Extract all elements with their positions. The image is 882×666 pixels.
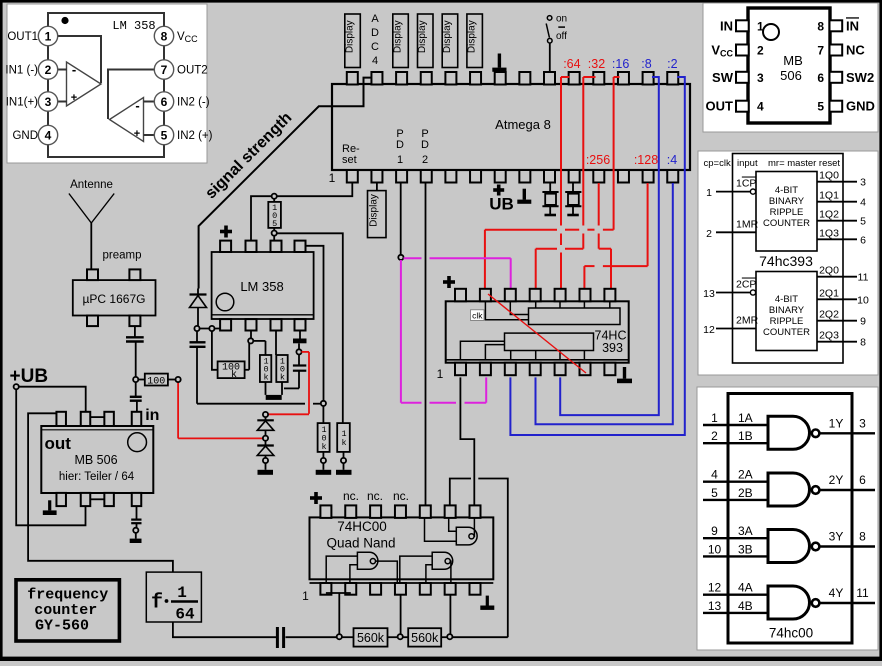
output 1Q2 pin 5 [817,209,866,228]
svg-text:3: 3 [45,95,52,109]
wire +UB to MB506 bottom pin2 [16,389,85,525]
svg-text:9: 9 [711,524,718,538]
svg-text:Display: Display [417,20,428,53]
MB506 top pin 4 [132,412,142,426]
LM358 pin 6 (IN2 (-)) [154,92,209,111]
Atmega bottom pin 14 [667,170,678,183]
svg-text:2MR: 2MR [736,315,759,327]
svg-text:OUT2: OUT2 [177,65,208,77]
svg-text:560k: 560k [411,631,439,645]
svg-text:1: 1 [706,187,712,199]
antenna symbol [69,194,114,270]
svg-text:7: 7 [817,44,824,58]
label :2 [667,57,677,71]
output 1Y pin 3 [819,416,875,433]
svg-text::2: :2 [667,57,677,71]
wire ADC4 signal (diagonal) [199,78,372,289]
393 bottom pin 1 [455,363,466,376]
MB506 pin 7 [817,43,865,58]
svg-text:1Y: 1Y [829,416,844,430]
74HC00 top pin 7 [470,505,481,518]
svg-text:2Q3: 2Q3 [819,330,839,342]
svg-text:1: 1 [757,19,764,33]
svg-text:4: 4 [757,100,764,114]
resistor 1k [337,423,350,458]
svg-text:5: 5 [161,129,168,143]
svg-text:k: k [263,373,268,383]
junction 105 bottom [272,231,277,236]
ground above pin 7 [492,54,506,72]
svg-text:4: 4 [45,129,52,143]
ground 10k-3 [316,463,332,475]
Display connector box above pin 5 [442,14,458,68]
label PD1 [396,128,404,166]
74HC00 top pin 3 [370,505,381,518]
MB506 pins2-3 link top [90,416,104,418]
label out [45,434,72,453]
svg-text:2: 2 [711,429,718,443]
Atmega bottom pin 7 [495,170,506,183]
svg-text:OUT1: OUT1 [7,31,38,43]
capacitor C-fb [284,354,306,388]
74HC00 top pin 2 [345,505,356,518]
svg-text:5: 5 [860,216,866,228]
wire 74HC00 pin6 down [449,595,451,635]
input 2MR pin 12 [703,315,758,337]
svg-text:RIPPLE: RIPPLE [770,207,804,218]
LM358 pin 3 (IN1(+)) [6,92,58,111]
svg-text:Quad Nand: Quad Nand [326,536,395,551]
Atmega top pin 9 [544,72,555,85]
wire pin5 to A2 [144,134,155,136]
input 2CP pin 13 [703,279,756,301]
wire 560k chain to riser [452,636,507,638]
Atmega top pin 11 [593,72,604,85]
Atmega top pin 13 [643,72,654,85]
74HC00 bottom pin 1 [320,583,331,595]
svg-text:5: 5 [272,219,277,229]
NAND gate C (internal) [425,517,478,545]
74HC00 bottom pin 5 [420,583,431,595]
junction C-fb top [296,343,301,354]
wire pin3 to A1 [58,101,67,103]
svg-text:5: 5 [817,100,824,114]
svg-text:2B: 2B [738,486,753,500]
svg-text:D: D [421,139,429,151]
junction 10k top [321,401,326,406]
393 bottom pin 3 [505,363,516,376]
svg-text:NC: NC [846,43,865,58]
svg-text:4: 4 [372,55,378,67]
wire 105 to 1k resistor [277,233,343,423]
svg-text:UB: UB [489,195,514,214]
svg-text:set: set [342,154,357,166]
LM358 pin 2 (IN1 (-)) [5,60,57,79]
junction diode bottom [263,458,268,463]
output 4Y pin 11 [819,586,875,603]
LM358 schematic top pin 4 [295,241,306,252]
svg-text:-: - [135,98,139,113]
LM358 schematic top pin 2 [246,241,257,252]
label hier: Teiler / 64 [59,471,135,483]
svg-text:Display: Display [345,20,356,53]
label in [145,407,159,424]
svg-text:preamp: preamp [103,250,142,262]
NAND gate A (internal) [326,552,397,583]
svg-text:counter: counter [34,602,97,619]
label :256 [586,153,610,167]
Atmega bottom pin 13 [643,170,654,183]
svg-text:input: input [737,158,758,169]
preamp top pin 2 [129,269,140,280]
long wire node A [197,403,321,405]
label Quad Nand [326,536,395,551]
resistor 100 [145,374,176,388]
label :4 [667,153,677,167]
MB506 schematic circle [128,433,147,452]
svg-text:74HC00: 74HC00 [337,519,387,534]
svg-text:COUNTER: COUNTER [763,327,810,338]
Atmega top pin 14 [667,72,678,85]
svg-text:8: 8 [817,19,824,33]
wire MB506 out to f-box [28,413,173,572]
svg-text:2A: 2A [738,468,753,482]
label preamp [103,250,142,262]
393 bottom pin 5 [555,363,566,376]
74HC00 bottom pin 7 [470,583,481,595]
LM358 pin 5 (IN2 (+)) [154,125,212,144]
label Atmega 8 [495,117,551,132]
svg-text:2: 2 [757,44,764,58]
capacitor C-sig [190,331,206,404]
74HC00 schematic IC body [310,517,494,583]
label :8 [641,57,651,71]
counter block 1 [756,172,817,252]
capacitor C-in [130,382,142,412]
svg-text:Antenne: Antenne [70,179,113,191]
LM358 schematic IC body [212,252,314,319]
svg-text:393: 393 [602,341,623,355]
preamp top pin 1 [87,269,98,280]
svg-text:D: D [396,139,404,151]
resistor 105 [268,199,281,231]
svg-text:12: 12 [703,324,715,336]
Atmega top pin 4 [421,72,432,85]
preamp bottom pin 2 [129,316,140,327]
preamp uPC1667G body [73,280,156,315]
svg-text:hier: Teiler / 64: hier: Teiler / 64 [59,471,135,483]
resistor 10k-3 [318,406,330,458]
output 3Y pin 8 [819,530,875,547]
label PD2 [421,128,429,166]
LM358 schematic circle mark [216,293,234,311]
wire 74HC00 pin4 down [400,595,402,635]
svg-text:A: A [371,13,379,25]
svg-text:out: out [45,434,72,453]
label LM 358 (schematic) [240,279,283,294]
74HC00 bottom pin 3 [370,583,381,595]
LM358 pinout IC body U-A [48,13,164,157]
svg-text:OUT: OUT [706,99,734,114]
svg-text:12: 12 [708,581,722,595]
svg-text:IN2 (+): IN2 (+) [177,130,213,142]
ground 393 [617,367,632,383]
junction LM358 pin2bottom [248,331,253,344]
MB506 pinout white panel [703,3,878,132]
output 2Q3 pin 8 [817,330,866,349]
Display connector box above pin 4 [417,14,433,68]
label +UB (left) [10,366,49,387]
label :32 [588,57,605,71]
junction 10k-3 bottom [321,458,326,463]
svg-text:4B: 4B [738,599,753,613]
Atmega bottom pin 1 [347,170,358,183]
wire red feedback (to diodes top) [268,352,309,414]
svg-text:k: k [321,442,326,452]
svg-text:+: + [71,92,77,104]
svg-text:MB 506: MB 506 [74,453,117,467]
wire to 10k-1 [253,341,265,355]
MB506 top pin 1 [56,412,65,426]
svg-text:SW2: SW2 [846,70,874,85]
svg-text:8: 8 [859,530,866,544]
74HC00 top pin 5 [420,505,431,518]
ground 10k pair [266,395,282,400]
74HC00 bottom pin 4 [395,583,406,595]
svg-text:1Q1: 1Q1 [819,190,839,202]
svg-text:k: k [231,369,237,381]
svg-text:100: 100 [147,377,165,388]
Atmega bottom pin 4 [421,170,432,183]
svg-text::4: :4 [667,153,677,167]
labels nc. [343,489,409,503]
MB506 bottom pin 3 [104,493,114,506]
box f/64 [146,572,201,623]
wire signal into LM358 out pin [197,328,220,330]
svg-text:Atmega 8: Atmega 8 [495,117,551,132]
wire pin6 to A2 [144,101,155,103]
Atmega top pin 8 [519,72,530,85]
input 2B pin 5 [703,486,768,500]
ground MB506 [43,500,57,515]
wire 105 to LM358 pin3 [273,236,275,241]
svg-text:2Q1: 2Q1 [819,287,839,299]
plus mark LM358 supply [220,226,232,238]
MB506 pins2-3 link bottom [90,498,104,500]
svg-text:clk: clk [472,310,483,320]
svg-text:13: 13 [703,288,715,300]
svg-text:C: C [371,41,379,53]
svg-text:1B: 1B [738,429,753,443]
wire :256 (red) [599,183,611,288]
svg-text:6: 6 [161,95,168,109]
svg-text:1: 1 [329,171,336,185]
ground below pin 8 [517,189,531,204]
svg-text:5: 5 [711,486,718,500]
label LM 358 [112,19,155,33]
ground 74HC00 [480,596,494,610]
svg-text:nc.: nc. [393,489,409,503]
svg-text:IN1(+): IN1(+) [6,97,38,109]
svg-text:2Y: 2Y [829,473,844,487]
diode D1 (signal line) [190,289,207,327]
wire PD1 to 393 clk2 (magenta) [404,258,511,288]
LM358 pin 1 (OUT1) [7,26,57,45]
wire :8 (blue) [560,77,659,415]
NAND gate B (internal) [400,552,453,583]
resistor 10k-1 [260,355,271,395]
393 top pin 5 [555,289,566,302]
LM358 schematic top pin 1 [220,241,231,252]
LM358 pin 7 (OUT2) [154,60,207,79]
svg-text:64: 64 [175,606,195,624]
74HC393 schematic IC body [446,301,629,362]
header cp=clk input mr= master reset [704,158,841,169]
diode D2 [257,417,274,436]
input 3A pin 9 [703,524,768,538]
svg-text::64: :64 [563,57,580,71]
svg-text:Display: Display [369,194,380,227]
svg-text:1: 1 [437,367,444,381]
label ADC 4 [371,13,379,67]
svg-text:4: 4 [711,468,718,482]
393 bottom pin 7 [604,363,615,376]
svg-text:nc.: nc. [367,489,383,503]
input 2A pin 4 [703,468,768,482]
label MB 506 (schematic) [74,453,117,467]
393 top pin 4 [530,289,541,302]
svg-text:frequency: frequency [27,587,108,604]
wire PD2 long vertical [425,183,427,505]
ground C-out [130,533,142,543]
svg-text:k: k [280,373,285,383]
output 2Q2 pin 9 [817,309,866,328]
wire :2 (blue) [510,77,684,435]
junction +UB [14,384,19,389]
counter block 2 [756,272,817,351]
input 1MR pin 2 [706,219,759,241]
Atmega bottom pin 3 [396,170,407,183]
wire 74HC00 pins1+2 to junction [326,593,351,635]
Atmega top pin 2 [371,72,382,85]
svg-text:LM 358: LM 358 [240,279,283,294]
svg-text:6: 6 [817,71,824,85]
capacitor C-preamp [126,326,144,377]
input 1B pin 2 [703,429,768,443]
svg-text:IN1 (-): IN1 (-) [5,65,38,77]
svg-text:1Q3: 1Q3 [819,227,839,239]
Display connector box above pin 3 [393,14,409,68]
input 1CP pin 1 [706,178,756,200]
output 1Q1 pin 4 [817,190,866,209]
Atmega bottom pin 5 [445,170,456,183]
Atmega top pin 12 [618,72,629,85]
on/off switch [546,14,567,73]
clk label [471,310,485,321]
svg-text:4A: 4A [738,581,753,595]
label signal strength [202,109,295,202]
393 top pin 3 [505,289,516,302]
label 74HC00 [337,519,387,534]
74hc393 outer rect [733,154,844,364]
MB506 bottom pin 4 [132,493,142,506]
MB506 pin 2 [711,43,764,59]
393 internal register 2 [505,333,594,350]
wire red from 100-resistor (to diodes mid) [178,382,263,438]
MB506 schematic IC body [41,426,153,493]
74hc00 outer rect [728,394,852,644]
svg-text:1CP: 1CP [736,178,756,190]
svg-text:6: 6 [859,473,866,487]
393 bottom pin 6 [580,363,591,376]
junction signal-node [194,326,199,331]
resistor 560k #1 [342,628,398,646]
svg-text:11: 11 [858,272,869,284]
393 top pin 7 [604,289,615,302]
LM358 pin 8 (Vcc) [154,26,198,45]
svg-text:4Y: 4Y [829,586,844,600]
svg-text:3A: 3A [738,524,753,538]
svg-text:1: 1 [177,584,187,602]
svg-text:Display: Display [467,20,478,53]
Atmega top pin 3 [396,72,407,85]
NAND gate 2Y [768,473,819,506]
svg-text:2CP: 2CP [736,279,756,291]
svg-text:GND: GND [12,130,38,142]
input 4B pin 13 [703,599,768,613]
wire Reset to LM358 [251,183,352,241]
junction C-out [133,528,138,533]
output 2Q1 pin 10 [817,287,869,306]
svg-text:nc.: nc. [343,489,359,503]
svg-text:8: 8 [860,337,866,349]
wire :16 (red) [485,77,620,288]
svg-text:10: 10 [708,542,722,556]
preamp bottom pin 1 [87,316,98,327]
svg-text:IN2 (-): IN2 (-) [177,97,210,109]
label :64 [563,57,580,71]
svg-text:+: + [134,128,140,140]
MB506 top pin 3 [104,412,114,426]
74HC00 bottom pin 2 [345,583,356,595]
MB506 top pin 2 [81,412,91,426]
Atmega 8 IC body U-main [332,84,690,170]
MB506 pin 1 [720,18,764,33]
svg-text:74hc00: 74hc00 [769,626,813,641]
svg-text:mr= master reset: mr= master reset [768,158,840,169]
LM358 pinout white panel [7,4,207,163]
svg-text:4-BIT: 4-BIT [775,294,798,305]
MB506 pin 8 [817,18,859,33]
ground diode stack [258,463,274,475]
wire pin7 to A2 output [108,70,155,120]
output 2Y pin 6 [819,473,875,490]
wire :128 (red) [584,183,647,288]
MB506 pin 5 [817,99,875,114]
393 top pin 6 [580,289,591,302]
wire :64 (red) [561,77,569,288]
Atmega top pin 7 [495,72,506,85]
LM358 schematic bottom pin 2 [246,319,257,330]
junction diode top [263,412,268,417]
svg-text:4-BIT: 4-BIT [775,185,798,196]
op-amp A1 [67,62,102,106]
Atmega top pin 6 [470,72,481,85]
74hc00 pinout white panel [697,387,878,650]
MB506 pin 3 [712,70,764,85]
Atmega bottom pin 2 [371,170,382,183]
input 3B pin 10 [703,542,768,556]
